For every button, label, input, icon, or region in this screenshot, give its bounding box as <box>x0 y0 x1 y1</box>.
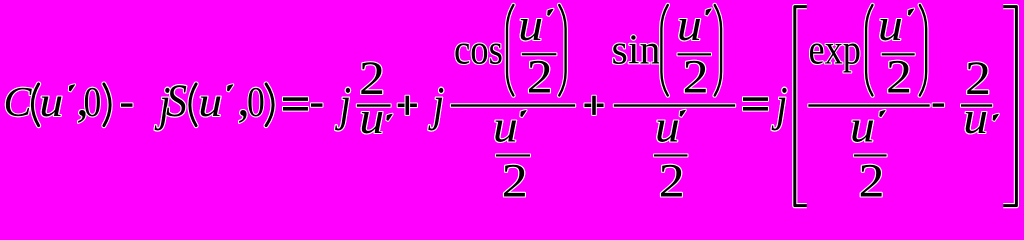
svg-text:2: 2 <box>683 51 709 104</box>
svg-text:0: 0 <box>247 80 265 126</box>
svg-text:u: u <box>198 80 222 126</box>
svg-text:u: u <box>963 93 988 143</box>
nested bar <box>882 53 915 55</box>
tall left paren <box>661 5 667 96</box>
svg-text:exp: exp <box>809 27 862 73</box>
main fraction bar <box>451 104 575 106</box>
svg-text:2: 2 <box>502 155 528 208</box>
minus sign <box>311 103 323 106</box>
svg-text:C: C <box>4 80 33 126</box>
nested bar <box>522 53 557 55</box>
main fraction bar <box>808 104 929 106</box>
minus sign <box>933 103 945 106</box>
svg-text:cos: cos <box>454 27 503 73</box>
minus sign <box>121 103 133 106</box>
tall left paren <box>507 5 513 96</box>
tall right paren <box>715 5 721 96</box>
fraction bar <box>961 104 992 106</box>
fraction bar <box>357 104 391 106</box>
svg-text:S: S <box>166 75 187 126</box>
svg-text:u: u <box>359 93 384 143</box>
main fraction bar <box>614 104 735 106</box>
big left bracket <box>795 7 807 206</box>
nested bar <box>496 154 530 156</box>
svg-text:0: 0 <box>84 80 102 126</box>
equals sign <box>743 97 768 101</box>
svg-text:u: u <box>878 0 903 50</box>
svg-text:sin: sin <box>612 27 661 73</box>
svg-text:2: 2 <box>886 51 912 104</box>
plus sign <box>584 104 603 108</box>
nested bar <box>654 154 688 156</box>
svg-text:u: u <box>655 102 680 152</box>
svg-text:2: 2 <box>527 51 553 104</box>
tall right paren <box>920 5 926 96</box>
svg-text:u: u <box>493 102 518 152</box>
plus sign <box>398 104 417 108</box>
svg-text:u: u <box>850 102 875 152</box>
svg-text:2: 2 <box>859 155 885 208</box>
tall right paren <box>559 5 565 96</box>
big right bracket <box>1003 7 1016 206</box>
nested bar <box>678 53 712 55</box>
svg-text:u: u <box>518 0 543 50</box>
svg-text:u: u <box>677 0 702 50</box>
svg-text:2: 2 <box>659 155 685 208</box>
tall left paren <box>866 5 872 96</box>
svg-text:u: u <box>39 80 63 126</box>
nested bar <box>854 154 887 156</box>
equals sign <box>283 97 308 101</box>
